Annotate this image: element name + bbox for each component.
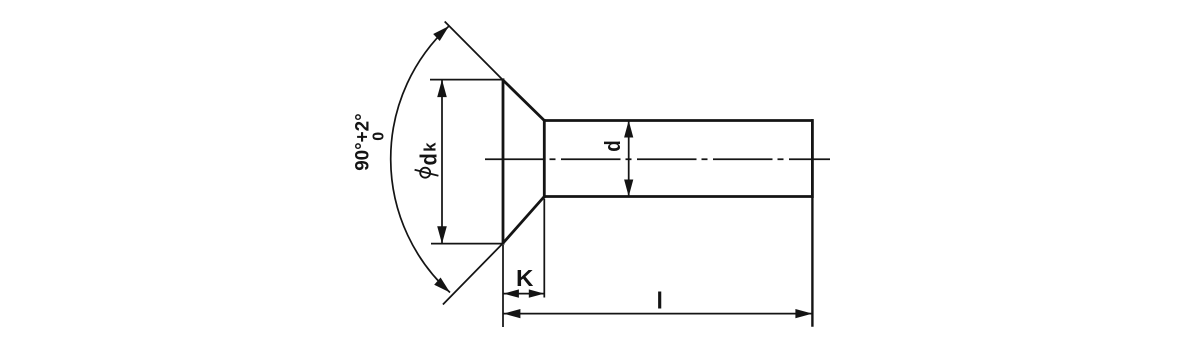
svg-text:d: d — [600, 140, 625, 152]
dimension line d (vertical inside shank) — [628, 121, 630, 197]
head flat face (left vertical outline) — [502, 78, 505, 244]
shank right end outline — [811, 119, 814, 198]
extension line below junction (right, for K) — [543, 199, 545, 298]
svg-text:k: k — [422, 142, 440, 152]
extension line below shank end (right, for l) — [811, 197, 813, 327]
head/shank junction vertical outline — [543, 119, 546, 198]
dk arrowhead top — [437, 80, 447, 98]
dimension line dk (vertical) — [441, 80, 443, 244]
centerline (axis, dash-dot) — [485, 158, 830, 160]
K arrowhead left — [503, 289, 519, 297]
angle dimension arc 90deg — [391, 26, 450, 293]
svg-text:l: l — [657, 287, 663, 313]
dimension line l — [503, 313, 812, 315]
head cone edge bottom (thick) — [503, 197, 545, 244]
cone angle extension line bottom diagonal — [443, 244, 503, 305]
label d — [600, 140, 625, 152]
head cone edge top (thick) — [503, 80, 545, 121]
shank top outline — [543, 119, 814, 122]
svg-text:0: 0 — [371, 132, 388, 141]
K arrowhead right — [529, 289, 545, 297]
extension line top for dk — [430, 79, 504, 81]
d arrowhead top — [624, 121, 633, 138]
extension line bottom for dk — [431, 243, 504, 245]
angle arc arrowhead top — [433, 26, 449, 41]
cone angle extension line top diagonal — [445, 22, 503, 80]
extension line below head corner (left, for K and l) — [502, 245, 504, 327]
svg-text:K: K — [516, 265, 534, 291]
dimension line K — [503, 293, 544, 295]
l arrowhead left — [503, 309, 520, 318]
label phi dk — [415, 142, 442, 178]
shank bottom outline — [543, 195, 814, 198]
angle label 90deg +2/0 — [353, 113, 388, 171]
d arrowhead bottom — [624, 180, 633, 197]
svg-text:90°+2°: 90°+2° — [353, 113, 374, 171]
dk arrowhead bottom — [437, 226, 447, 244]
angle arc arrowhead bottom — [434, 278, 450, 293]
svg-text:d: d — [416, 153, 442, 165]
l arrowhead right — [795, 309, 812, 318]
